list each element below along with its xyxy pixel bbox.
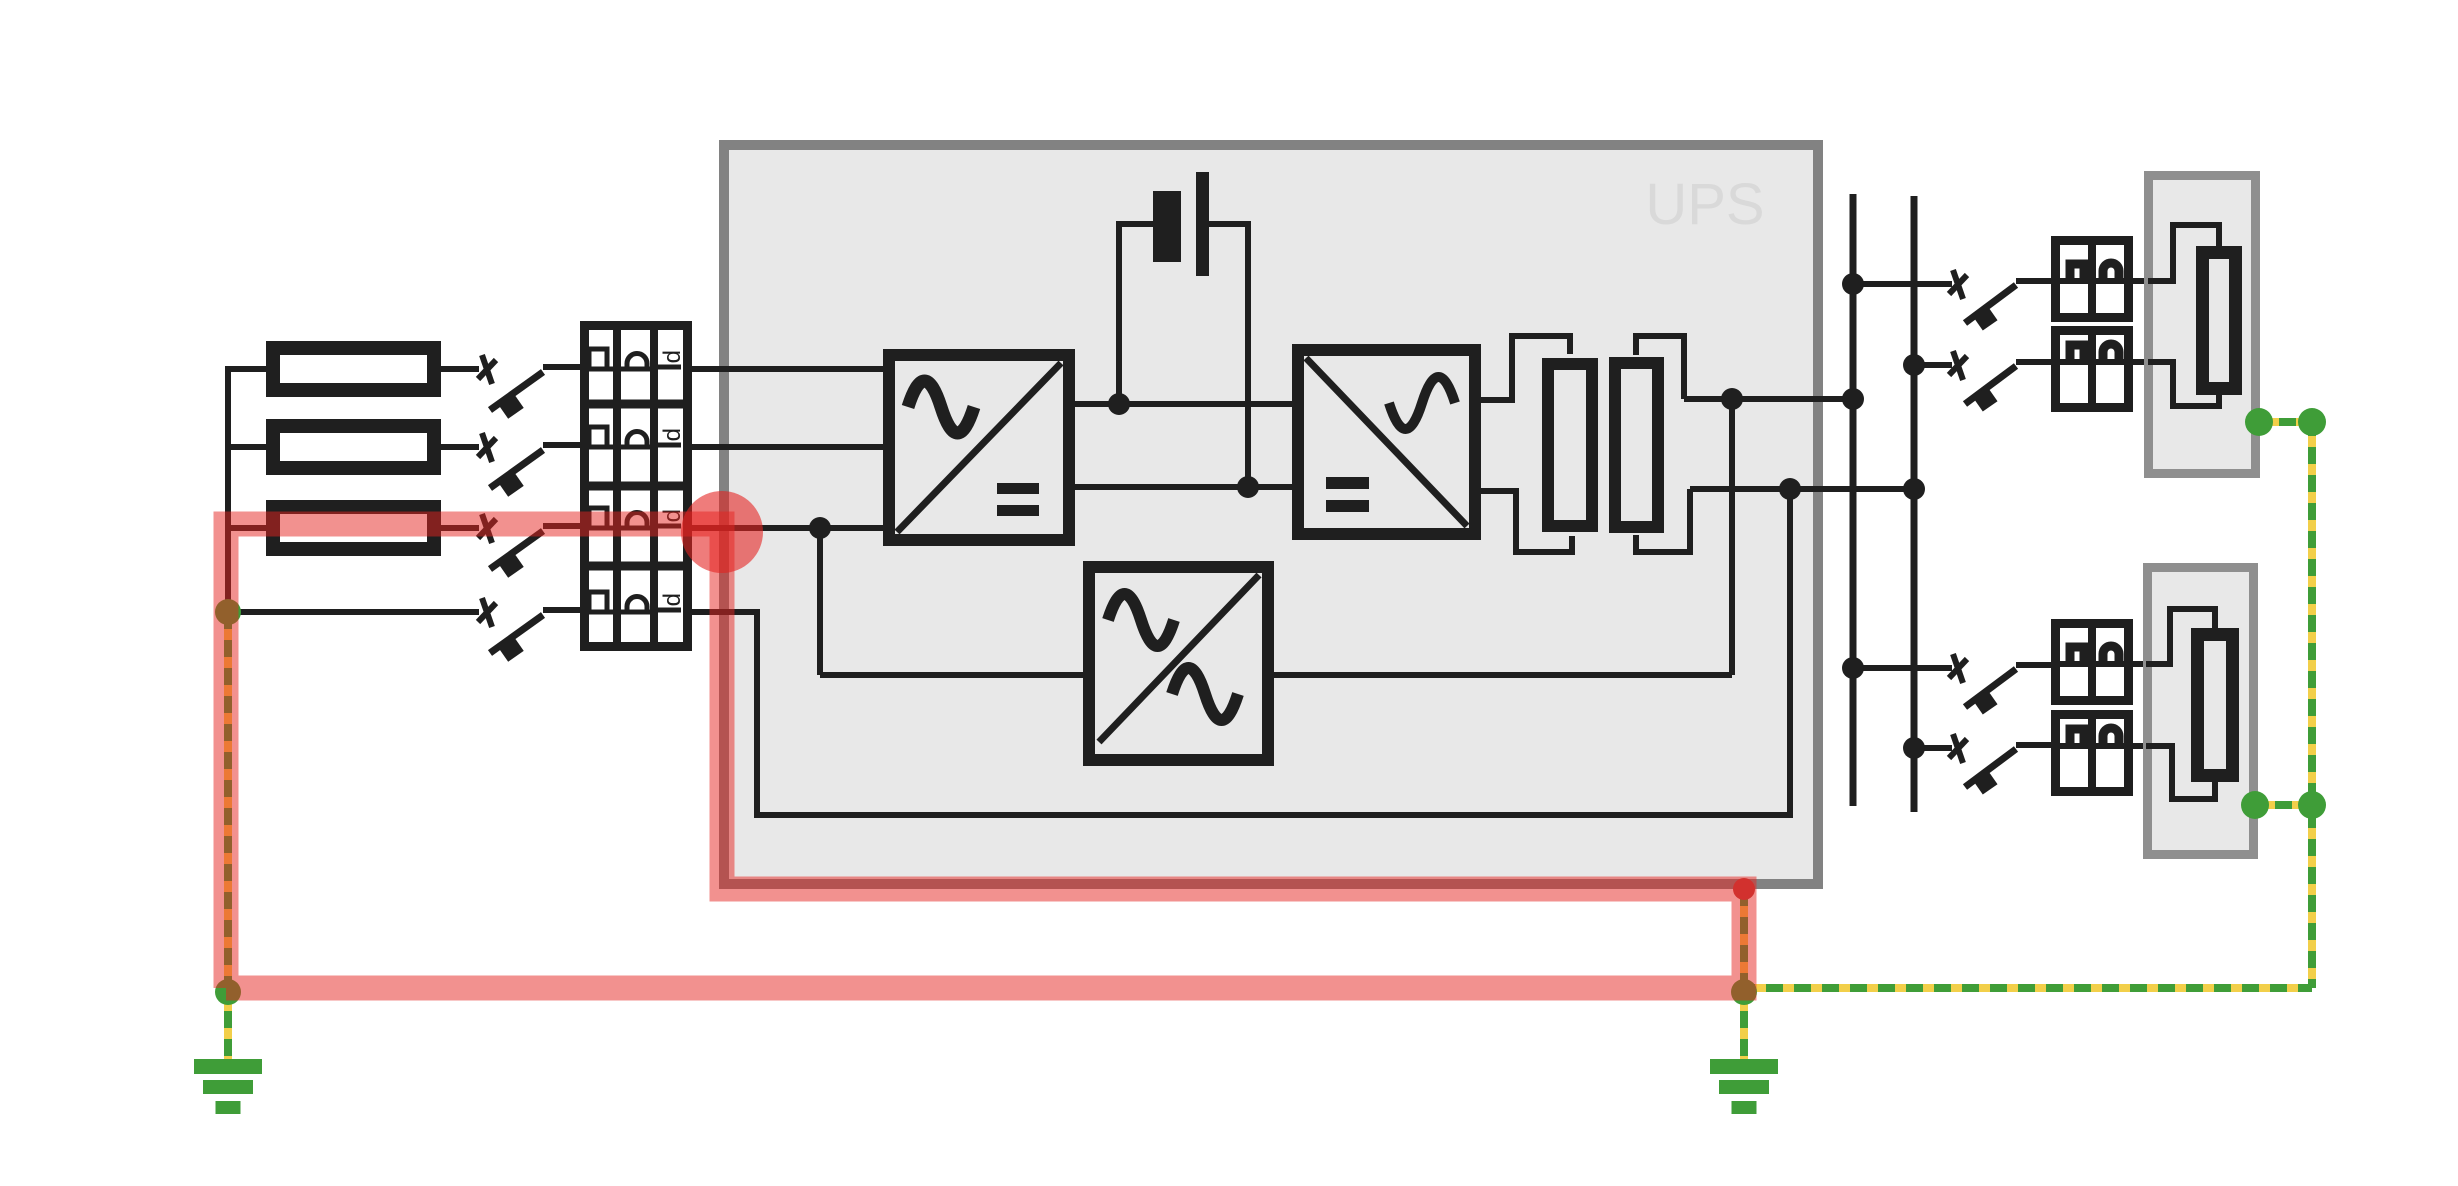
rectifier U1 DC bars xyxy=(997,483,1039,494)
rectifier U1 sine symbol xyxy=(908,381,974,433)
RCD row4 Id underline xyxy=(657,608,681,613)
PE stem left ground xyxy=(224,992,232,1062)
wire phase B to rectifier xyxy=(692,444,889,450)
RCD row4 lead col2 xyxy=(617,610,654,615)
wire winding2 left lead xyxy=(225,444,270,450)
inverter U2 box xyxy=(1298,350,1475,534)
RCD row3 Id underline xyxy=(657,524,681,529)
node PE load L1 b xyxy=(2298,408,2326,436)
wire winding2 right lead xyxy=(438,444,479,450)
load L2 resistor xyxy=(2198,635,2233,776)
bypass converter U3 diagonal xyxy=(1099,575,1259,742)
RCD row3 lead col2 xyxy=(617,526,654,531)
fault node UPS frame xyxy=(1733,878,1755,900)
rectifier U1 box xyxy=(889,355,1069,540)
RCD row1 Id label xyxy=(659,350,686,370)
wire winding3 right lead xyxy=(438,525,479,531)
node fault-phase junction xyxy=(809,517,831,539)
load RCD D magnetic trip glyph xyxy=(2070,729,2084,744)
RCD row3 magnetic trip glyph xyxy=(589,508,607,527)
source winding W2 xyxy=(273,426,434,468)
node DC+ battery junction xyxy=(1108,393,1130,415)
svg-text:UPS: UPS xyxy=(1645,172,1764,237)
node PE source star point xyxy=(215,599,241,625)
switch Q1 x-mark xyxy=(478,355,496,384)
feeder A breaker xyxy=(1949,270,2053,331)
battery B1 negative plate xyxy=(1153,191,1181,262)
load RCD D arc glyph xyxy=(2103,728,2119,744)
wire feeder C xyxy=(1853,665,1952,671)
load RCD A arc glyph xyxy=(2103,263,2119,279)
RCD row2 magnetic trip glyph xyxy=(589,427,607,446)
load L1 resistor xyxy=(2203,253,2236,389)
RCD row4 magnetic trip glyph xyxy=(589,592,607,611)
load RCD C lead xyxy=(2053,661,2148,667)
wire inverter out bottom xyxy=(1479,491,1572,552)
load RCD A column separator xyxy=(2088,240,2096,318)
node neutral tap xyxy=(1779,478,1801,500)
RCD row1 Id underline xyxy=(657,365,681,370)
wire bypass feed horizontal xyxy=(820,672,1090,678)
PE conductor UPS drop xyxy=(1740,889,1748,988)
wire battery left leg xyxy=(1119,224,1153,404)
load RCD D lead xyxy=(2053,743,2148,749)
source winding W3 xyxy=(273,507,434,549)
node PE load L2 a xyxy=(2241,791,2269,819)
wire feeder B xyxy=(1914,362,1952,368)
RCD row4 Id label xyxy=(659,593,686,613)
wire neutral row lead xyxy=(228,609,479,615)
load RCD A frame xyxy=(2056,241,2129,318)
load RCD D frame xyxy=(2056,715,2129,792)
wire phase A to rectifier xyxy=(692,366,889,372)
PE link load L1 xyxy=(2259,418,2312,426)
ground symbol right xyxy=(1710,1059,1778,1074)
rectifier U1 diagonal xyxy=(897,363,1061,532)
wire battery right leg xyxy=(1209,224,1248,487)
bus bar 2 (neutral) xyxy=(1911,196,1918,812)
RCD block row separator 3 xyxy=(584,562,688,571)
wire DC negative rail xyxy=(1073,484,1294,490)
PE conductor source drop xyxy=(224,612,232,988)
switch Q2 x-mark xyxy=(478,433,496,462)
wire DC positive rail xyxy=(1073,401,1294,407)
node feeder D tap xyxy=(1903,737,1925,759)
inverter U2 sine symbol xyxy=(1389,377,1455,429)
load L2 enclosure xyxy=(2148,568,2254,855)
RCD row2 lead col1 xyxy=(581,445,617,450)
node feeder B tap xyxy=(1903,354,1925,376)
wire feeder A xyxy=(1853,281,1952,287)
RCD row3 Id label xyxy=(659,509,686,529)
RCD block row separator 1 xyxy=(584,400,688,409)
load L1 wire bottom xyxy=(2148,362,2219,406)
wire secondary top step xyxy=(1636,336,1684,399)
load RCD B column separator xyxy=(2088,330,2096,408)
switch Q2 breaker blade xyxy=(490,445,581,497)
wire phase C to node xyxy=(692,525,889,531)
switch Q4 breaker blade xyxy=(490,610,581,662)
node PE load L2 b xyxy=(2298,791,2326,819)
RCD block column separator 1 xyxy=(613,325,621,647)
load RCD B lead xyxy=(2053,359,2148,365)
fault location circle xyxy=(681,491,763,573)
load L1 wire top xyxy=(2148,225,2219,281)
switch Q4 x-mark xyxy=(478,598,496,627)
RCD row2 Id underline xyxy=(657,443,681,448)
node PE source-ground xyxy=(215,979,241,1005)
RCD row2 arc glyph xyxy=(627,432,647,447)
RCD row1 lead col2 xyxy=(617,367,654,372)
inverter U2 diagonal xyxy=(1306,358,1467,526)
node neutral-bus2 xyxy=(1903,478,1925,500)
bypass converter U3 sine top xyxy=(1108,594,1174,646)
RCD row1 lead col1 xyxy=(581,367,617,372)
PE stem right ground xyxy=(1740,992,1748,1062)
wire phase output xyxy=(1684,396,1853,402)
transformer T primary winding xyxy=(1548,364,1592,526)
RCD row1 magnetic trip glyph xyxy=(589,349,607,368)
node DC- battery junction xyxy=(1237,476,1259,498)
load RCD C frame xyxy=(2056,624,2129,701)
RCD row2 Id label xyxy=(659,428,686,448)
node PE load L1 a xyxy=(2245,408,2273,436)
battery B1 positive plate xyxy=(1196,172,1209,276)
node feeder C tap xyxy=(1842,657,1864,679)
wire neutral output xyxy=(1690,486,1914,492)
wire bypass feed vertical xyxy=(817,528,823,675)
bypass converter U3 sine bottom xyxy=(1172,668,1238,720)
load L2 wire bottom xyxy=(2146,746,2215,799)
wire winding1 right lead xyxy=(438,366,479,372)
node PE UPS-ground xyxy=(1731,979,1757,1005)
load RCD A lead xyxy=(2053,278,2148,284)
switch Q1 breaker blade xyxy=(490,367,581,419)
load RCD C arc glyph xyxy=(2103,646,2119,662)
RCD block outer frame xyxy=(585,326,688,647)
bypass converter U3 box xyxy=(1089,567,1268,760)
wire winding3 left lead xyxy=(225,525,270,531)
wire secondary bottom step xyxy=(1636,489,1690,552)
RCD block row separator 2 xyxy=(584,482,688,491)
RCD row2 lead col2 xyxy=(617,445,654,450)
RCD row4 arc glyph xyxy=(627,597,647,612)
wire neutral into UPS xyxy=(692,489,1790,815)
node bypass tap xyxy=(1721,388,1743,410)
feeder B breaker xyxy=(1949,351,2053,412)
PE conductor loads drop xyxy=(2308,422,2316,988)
UPS enclosure xyxy=(724,145,1818,884)
load RCD B magnetic trip glyph xyxy=(2070,345,2084,360)
load RCD C column separator xyxy=(2088,623,2096,701)
load RCD C magnetic trip glyph xyxy=(2070,647,2084,662)
RCD row1 arc glyph xyxy=(627,354,647,368)
RCD row4 lead col1 xyxy=(581,610,617,615)
transformer T secondary winding xyxy=(1615,363,1658,527)
switch Q3 breaker blade xyxy=(490,526,581,578)
load L2 wire top xyxy=(2146,609,2215,664)
load RCD B arc glyph xyxy=(2103,344,2119,360)
feeder C breaker xyxy=(1949,654,2053,715)
fault location circle inner xyxy=(681,491,763,573)
load RCD D column separator xyxy=(2088,714,2096,792)
wire feeder D xyxy=(1914,745,1952,751)
source winding W1 xyxy=(273,348,434,390)
RCD row3 arc glyph xyxy=(627,513,647,528)
wire bypass return vertical xyxy=(1729,399,1735,675)
source neutral bus wire xyxy=(225,366,231,612)
load L1 enclosure xyxy=(2149,176,2256,474)
fault current path xyxy=(226,524,1744,988)
ground symbol left xyxy=(194,1059,262,1074)
feeder D breaker xyxy=(1949,734,2053,795)
load RCD B frame xyxy=(2056,331,2129,408)
RCD row3 lead col1 xyxy=(581,526,617,531)
switch Q3 x-mark xyxy=(478,514,496,543)
PE conductor bottom run xyxy=(1744,984,2312,992)
wire inverter out top xyxy=(1479,336,1570,400)
PE link load L2 xyxy=(2255,801,2312,809)
wire winding1 left lead xyxy=(225,366,270,372)
inverter U2 DC bars xyxy=(1326,477,1369,489)
node feeder A tap xyxy=(1842,273,1864,295)
wire bypass return horizontal xyxy=(1270,672,1732,678)
load RCD A magnetic trip glyph xyxy=(2070,264,2084,279)
bus bar 1 (phase) xyxy=(1850,194,1857,806)
RCD block column separator 2 xyxy=(650,325,658,647)
node phase-bus1 xyxy=(1842,388,1864,410)
